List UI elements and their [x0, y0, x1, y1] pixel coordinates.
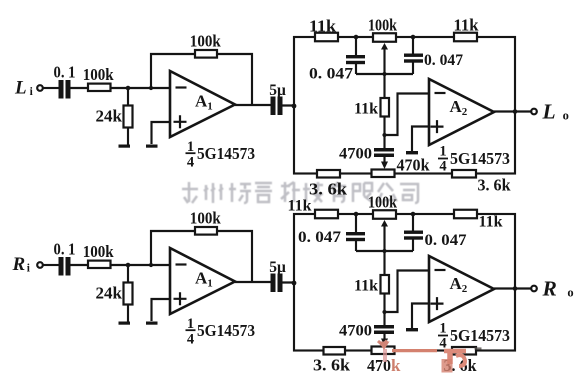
svg-text:0. 047: 0. 047	[309, 66, 353, 83]
svg-text:11k: 11k	[454, 16, 480, 35]
svg-text:11k: 11k	[287, 198, 311, 215]
svg-text:11k: 11k	[309, 17, 337, 36]
svg-text:k: k	[391, 356, 401, 375]
svg-text:0. 047: 0. 047	[425, 232, 467, 249]
svg-text:0. 047: 0. 047	[424, 52, 463, 69]
svg-text:3. 6k: 3. 6k	[309, 180, 348, 199]
svg-text:3. 6k: 3. 6k	[478, 176, 512, 195]
svg-text:470: 470	[367, 356, 391, 375]
svg-text:3. 6k: 3. 6k	[313, 356, 351, 375]
svg-text:0. 047: 0. 047	[298, 229, 341, 246]
svg-text:470k: 470k	[397, 156, 431, 175]
svg-text:11k: 11k	[479, 214, 503, 231]
